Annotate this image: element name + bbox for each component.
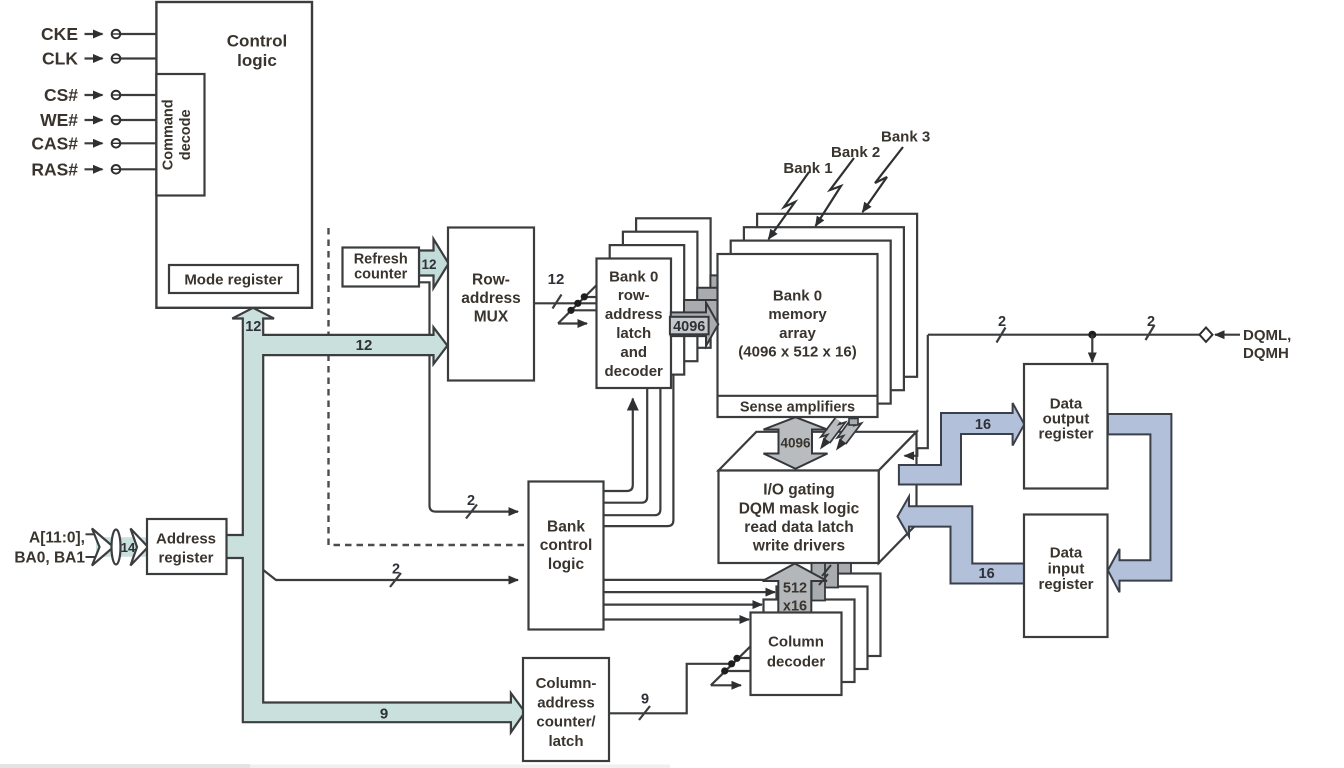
svg-text:Address: Address [156,531,216,548]
bank 1 512x16 arrow stub [812,563,826,601]
bank 2 memory array [744,227,904,390]
top face [719,432,917,471]
wire MUX output (12) with bus taps [534,285,597,323]
right face [879,432,917,563]
CS# input [85,94,103,96]
svg-text:2: 2 [1147,314,1155,330]
bank 1 memory array [731,241,891,404]
column decoder stack and 512x16 arrows [751,563,881,695]
svg-text:4096: 4096 [673,319,705,335]
svg-text:Column: Column [768,634,824,651]
svg-text:CS#: CS# [44,85,78,105]
svg-text:logic: logic [548,556,585,573]
svg-text:decoder: decoder [605,363,664,380]
svg-text:14: 14 [121,540,136,555]
svg-text:DQM mask logic: DQM mask logic [739,500,860,517]
svg-text:Bank 0: Bank 0 [773,287,822,304]
svg-text:Column-: Column- [536,675,597,692]
RAS# input [85,168,103,170]
front face [719,471,879,564]
svg-text:address: address [605,306,663,323]
svg-text:12: 12 [548,271,565,288]
svg-text:2: 2 [467,493,475,509]
gray stub bank3 [849,419,858,426]
svg-text:address: address [461,290,520,307]
slash label 2 on address-bank wire [390,573,401,587]
bank 3 row-address latch (back) [636,218,711,347]
column-address counter/latch box [523,658,609,761]
zigzag marks on stacked arrows [819,565,831,585]
bank 3 memory array (back) [757,214,917,377]
svg-text:Bank 2: Bank 2 [831,144,880,161]
svg-text:row-: row- [618,287,650,304]
svg-text:Command: Command [161,99,177,170]
svg-text:Mode register: Mode register [184,272,283,289]
bank 2 row-address latch [623,232,698,362]
data input register box [1024,515,1108,638]
gray pointer bolt bank2 to I/O [843,422,853,442]
svg-text:Bank: Bank [547,519,585,536]
control logic box [156,2,312,308]
bank 0 column decoder [751,613,842,696]
svg-text:2: 2 [392,562,400,578]
bank 3 4096 arrow [710,265,758,309]
wire column-address counter to column decoders (9) [609,646,751,713]
bank control logic box [529,482,604,630]
command decode box [156,74,204,196]
junction dots on column taps [721,667,728,674]
refresh counter teal arrow to MUX [419,239,449,288]
svg-text:12: 12 [421,257,436,272]
svg-text:Bank 0: Bank 0 [609,268,658,285]
svg-text:Bank 3: Bank 3 [881,128,930,145]
blue write data band data input register to I/O gating (16) [898,497,1025,584]
input bus arrow A[11:0],BA0,BA1 [86,529,149,566]
svg-text:Data: Data [1050,544,1083,561]
svg-text:12: 12 [245,319,261,335]
svg-text:4096: 4096 [780,436,811,451]
input signal rows [85,34,157,169]
svg-text:read data latch: read data latch [744,519,853,536]
slash label 2 on refresh-bank wire [466,505,477,519]
bank 3 512x16 arrow stub [838,563,852,574]
wire address bus to bank control logic (2) [262,569,518,580]
bank 2 4096 arrow [697,278,745,322]
gray pointer bolt bank1 to I/O [827,420,838,441]
svg-text:9: 9 [380,706,388,723]
svg-text:register: register [1038,576,1093,593]
svg-text:array: array [779,325,816,342]
svg-text:512: 512 [783,581,807,597]
WE# input [85,119,103,121]
bank 0 4096 arrow [671,303,719,347]
CLK input [85,57,103,59]
DQML DQMH wire [928,334,1200,336]
svg-text:Sense amplifiers: Sense amplifiers [740,400,855,416]
svg-text:9: 9 [641,692,649,708]
svg-text:logic: logic [237,51,277,70]
bank 1 row-address latch [610,245,685,375]
svg-text:decoder: decoder [767,653,826,670]
teal address bus network [226,308,525,733]
bank 0 row-address latch box [597,259,672,389]
row-address MUX box [448,228,534,381]
svg-text:x16: x16 [783,599,807,615]
svg-text:CAS#: CAS# [31,133,78,153]
svg-text:I/O gating: I/O gating [763,481,834,498]
junction dot [1088,331,1096,339]
blue DQ loop band data output to data input register [1108,414,1172,592]
I/O gating 3D box [719,432,917,563]
bottom page shadow [0,764,250,768]
svg-text:control: control [540,537,593,554]
bank 3 column decoder (back) [790,574,881,657]
svg-text:latch: latch [616,325,651,342]
bank 0 512x16 arrow [763,564,828,613]
wire refresh counter to bank control logic (2) [419,282,518,511]
svg-text:16: 16 [975,417,991,433]
svg-text:address: address [537,694,595,711]
bank 0 memory array [718,254,878,417]
wires bank control to column decoders [604,580,789,620]
svg-text:latch: latch [548,733,583,750]
4096 double arrow sense amps to I/O gating [764,417,828,469]
svg-text:WE#: WE# [40,110,78,130]
CKE input [85,33,103,35]
slash label 2 left [997,328,1006,343]
svg-text:register: register [1038,426,1093,443]
blue read data band I/O gating to data output register (16) [899,403,1024,485]
svg-text:memory: memory [768,306,827,323]
address register box [147,519,227,574]
bank 2 512x16 arrow stub [825,563,839,588]
svg-text:(4096 x 512 x 16): (4096 x 512 x 16) [738,344,856,361]
svg-text:2: 2 [998,314,1006,330]
CAS# input [85,142,103,144]
mode register box [169,265,298,293]
arrow junction to data output register [1091,335,1093,362]
svg-text:counter: counter [354,267,408,283]
bank 1 column decoder [764,600,855,683]
svg-text:MUX: MUX [474,309,509,326]
svg-text:counter/: counter/ [536,714,596,731]
MEMSTACK: banks 3..0 row-address latches, memory arrays and 4096 arrows [597,214,918,417]
svg-text:A[11:0],: A[11:0], [29,530,85,547]
sense amplifiers strip [718,395,878,397]
dashed control line from control logic to bank control logic [329,228,528,545]
svg-text:CKE: CKE [41,24,78,44]
DQML/DQMH input diamond and arrow [1200,328,1213,342]
svg-text:BA0, BA1: BA0, BA1 [14,550,85,567]
svg-text:DQMH: DQMH [1243,345,1289,362]
svg-text:16: 16 [979,566,995,582]
svg-text:Refresh: Refresh [354,252,408,268]
4096 label box [670,317,709,335]
svg-text:and: and [620,344,647,361]
svg-text:Control: Control [227,32,287,51]
wires bank control to row-address latches [604,375,674,526]
DQM wire from junction into I/O gating [905,335,928,456]
svg-text:write drivers: write drivers [752,537,845,554]
svg-text:decode: decode [178,109,194,160]
bank 1 4096 arrow [684,290,732,334]
svg-text:CLK: CLK [42,49,78,69]
junction dots on row-address taps [567,307,574,314]
svg-text:RAS#: RAS# [31,159,78,179]
bank 2 column decoder [777,587,868,670]
svg-text:DQML,: DQML, [1243,327,1291,344]
refresh counter box [343,248,420,287]
slash label 2 right [1146,325,1155,340]
slash label 12 on MUX output [553,295,562,309]
svg-text:input: input [1048,560,1085,577]
svg-text:register: register [158,550,213,567]
svg-text:Row-: Row- [472,272,510,289]
data output register box [1024,364,1108,489]
svg-text:12: 12 [356,337,373,354]
